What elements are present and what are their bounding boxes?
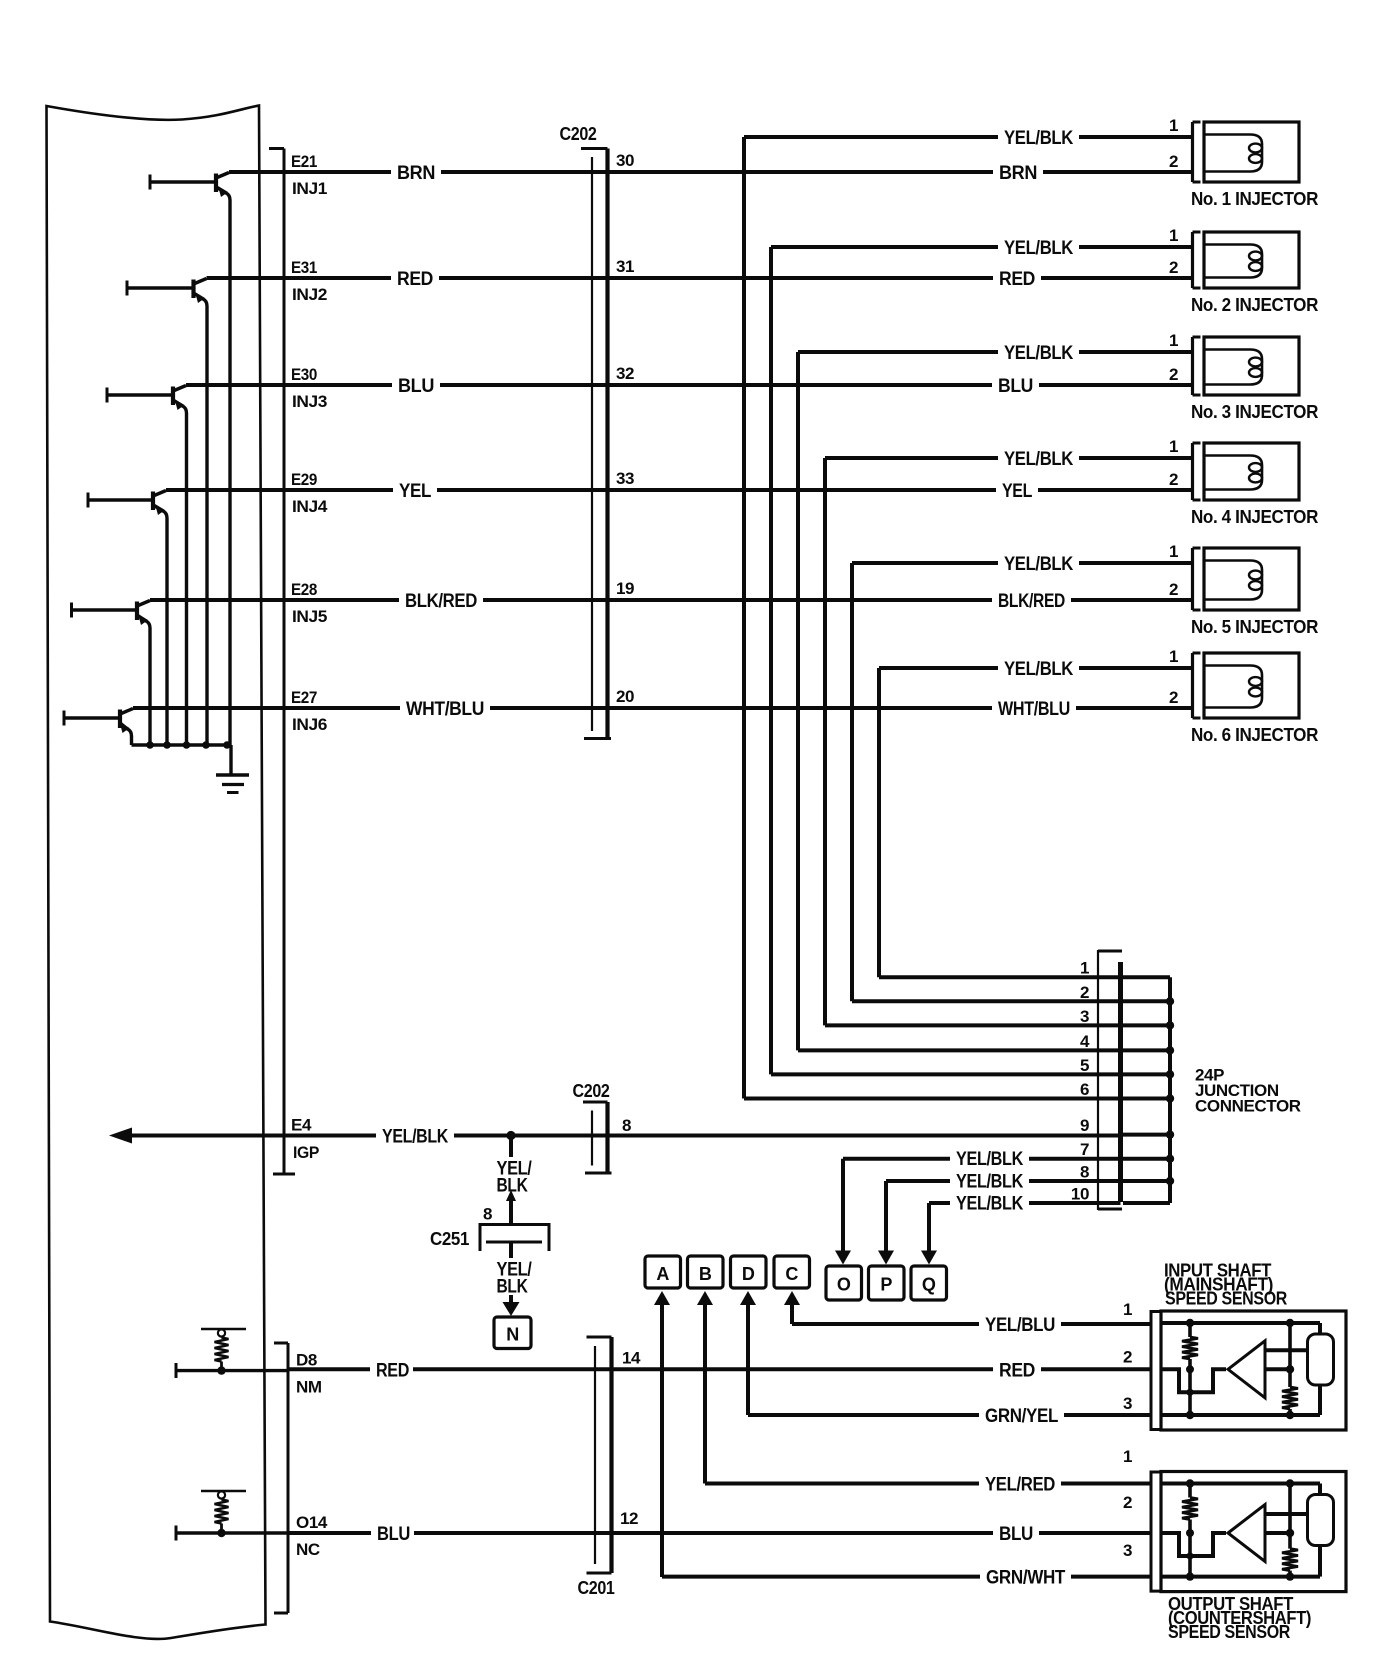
svg-text:No. 5 INJECTOR: No. 5 INJECTOR	[1191, 617, 1318, 637]
wire from A down to sensor row	[654, 1291, 670, 1577]
svg-text:BLK: BLK	[497, 1176, 529, 1197]
svg-text:BLK/RED: BLK/RED	[405, 591, 477, 612]
svg-text:1: 1	[1169, 647, 1178, 666]
junction node on E4 wire	[506, 1131, 515, 1140]
pin numbers 1,2,3 input shaft speed sensor	[1123, 1300, 1132, 1413]
injector coil No.6 INJECTOR	[1204, 653, 1299, 718]
svg-text:No. 4 INJECTOR: No. 4 INJECTOR	[1191, 507, 1318, 527]
svg-text:19: 19	[616, 579, 634, 598]
svg-text:BRN: BRN	[397, 163, 435, 184]
wire YEL/BLK : 24P junction pin 10 to terminal Q	[921, 1194, 1121, 1265]
wire YEL/BLK : 24P junction pin 8 to terminal P	[878, 1172, 1121, 1265]
wire BRN : ECU E21 to C202 pin 30 to injector 1 pin 2	[229, 151, 1193, 184]
wire YEL/BLK : ECU E4/IGP to C202 pin 8 to 24P junction pin 9	[109, 1127, 1121, 1148]
wire YEL/BLK : injector 6 pin 1 to 24P junction connector	[879, 659, 1193, 977]
injector coil No.1 INJECTOR	[1204, 122, 1299, 182]
node E27/INJ6 pin label	[291, 688, 327, 734]
svg-text:1: 1	[1169, 226, 1178, 245]
node O14/NC pin label	[296, 1513, 328, 1559]
svg-text:BLU: BLU	[999, 1524, 1033, 1545]
svg-text:IGP: IGP	[293, 1143, 319, 1162]
wire GRN/WHT : terminal A to output sensor pin 3	[662, 1568, 1151, 1589]
wire RED : ECU E31 to C202 pin 31 to injector 2 pin 2	[207, 257, 1193, 290]
svg-text:1: 1	[1169, 542, 1178, 561]
svg-text:E28: E28	[291, 580, 317, 599]
24P junction connector pin numbers	[1071, 959, 1090, 1204]
pin numbers 1,2 injector 3	[1169, 331, 1178, 384]
svg-text:P: P	[880, 1275, 892, 1295]
svg-text:2: 2	[1169, 365, 1178, 384]
connector C202 (bottom, pin 8)	[573, 1081, 632, 1173]
wire O14 base segment with tick	[176, 1526, 288, 1541]
svg-text:BRN: BRN	[999, 163, 1037, 184]
wire YEL/BLK : injector 2 pin 1 to 24P junction connector	[771, 238, 1193, 1074]
svg-text:33: 33	[616, 469, 634, 488]
svg-text:N: N	[506, 1325, 519, 1345]
wire YEL/BLK : injector 5 pin 1 to 24P junction connector	[852, 554, 1193, 1001]
svg-text:D8: D8	[296, 1351, 317, 1370]
input shaft speed sensor body	[1161, 1311, 1346, 1430]
label INPUT SHAFT (MAINSHAFT) SPEED SENSOR	[1164, 1261, 1287, 1309]
svg-text:9: 9	[1080, 1116, 1089, 1135]
svg-text:3: 3	[1123, 1394, 1132, 1413]
wire GRN/YEL : terminal D to input sensor pin 3	[748, 1406, 1151, 1427]
wire WHT/BLU : ECU E27 to C202 pin 20 to injector 6 pin 2	[133, 687, 1193, 720]
junction dots on emitter bus	[146, 741, 231, 749]
svg-text:YEL/BLK: YEL/BLK	[956, 1194, 1024, 1215]
svg-text:GRN/WHT: GRN/WHT	[986, 1568, 1066, 1589]
svg-text:BLU: BLU	[377, 1524, 410, 1545]
ground symbol	[216, 775, 249, 793]
svg-text:INJ5: INJ5	[292, 607, 327, 626]
injector connector bracket 6	[1193, 653, 1201, 718]
svg-text:B: B	[699, 1264, 712, 1284]
svg-text:Q: Q	[922, 1275, 936, 1295]
transistor Q5 (INJ5 driver)	[72, 601, 151, 629]
transistor Q1 (INJ1 driver)	[150, 173, 230, 201]
label No. 4 INJECTOR	[1191, 507, 1318, 527]
svg-text:RED: RED	[376, 1360, 409, 1381]
svg-text:NC: NC	[296, 1540, 320, 1559]
svg-text:31: 31	[616, 257, 634, 276]
svg-text:No. 6 INJECTOR: No. 6 INJECTOR	[1191, 725, 1318, 745]
svg-text:6: 6	[1080, 1080, 1089, 1099]
svg-text:INJ3: INJ3	[292, 392, 327, 411]
wire RED : ECU D8 via C201 pin 14 to input sensor pin 2	[288, 1360, 1151, 1381]
svg-text:1: 1	[1169, 437, 1178, 456]
svg-text:2: 2	[1080, 983, 1089, 1002]
svg-text:YEL: YEL	[1002, 481, 1033, 502]
svg-text:14: 14	[622, 1348, 641, 1367]
svg-text:C: C	[785, 1264, 798, 1284]
svg-text:8: 8	[1080, 1163, 1089, 1182]
terminal box O	[826, 1266, 862, 1300]
svg-text:30: 30	[616, 151, 634, 170]
svg-text:E30: E30	[291, 365, 317, 384]
terminal box A	[645, 1256, 681, 1288]
wire from D down to sensor row	[740, 1291, 756, 1415]
svg-text:O14: O14	[296, 1513, 328, 1532]
label No. 5 INJECTOR	[1191, 617, 1318, 637]
svg-text:2: 2	[1169, 152, 1178, 171]
pin numbers 1,2 injector 4	[1169, 437, 1178, 489]
svg-text:C202: C202	[560, 124, 597, 144]
injector coil No.3 INJECTOR	[1204, 337, 1299, 395]
emitter bus wire	[132, 200, 232, 775]
svg-text:INJ6: INJ6	[292, 715, 327, 734]
svg-text:C202: C202	[573, 1081, 610, 1101]
svg-text:32: 32	[616, 364, 634, 383]
wire YEL/BLU : terminal C to input sensor pin 1	[792, 1315, 1151, 1336]
input shaft speed sensor connector bracket	[1151, 1312, 1161, 1430]
svg-text:8: 8	[483, 1205, 492, 1224]
label No. 2 INJECTOR	[1191, 295, 1318, 315]
svg-text:20: 20	[616, 687, 634, 706]
label No. 6 INJECTOR	[1191, 725, 1318, 745]
svg-text:1: 1	[1169, 331, 1178, 350]
wire YEL/BLK : 24P junction pin 7 to terminal O	[835, 1149, 1121, 1264]
svg-text:E31: E31	[291, 258, 317, 277]
terminal box B	[688, 1256, 724, 1288]
svg-text:SPEED SENSOR: SPEED SENSOR	[1168, 1622, 1290, 1642]
svg-text:12: 12	[620, 1509, 638, 1528]
svg-text:7: 7	[1080, 1140, 1089, 1159]
svg-text:1: 1	[1123, 1300, 1132, 1319]
transistor Q4 (INJ4 driver)	[88, 491, 167, 519]
svg-text:INJ4: INJ4	[292, 497, 328, 516]
svg-text:8: 8	[622, 1116, 631, 1135]
injector connector bracket 2	[1193, 232, 1201, 288]
injector connector bracket 4	[1193, 443, 1201, 500]
24P junction connector body	[1098, 950, 1122, 1210]
wire YEL/BLK : injector 3 pin 1 to 24P junction connector	[798, 343, 1193, 1050]
injector connector bracket 1	[1193, 122, 1201, 182]
transistor Q2 (INJ2 driver)	[127, 279, 207, 307]
wire YEL/BLK branch down to C251	[483, 1136, 533, 1225]
node E31/INJ2 pin label	[291, 258, 327, 304]
24P junction connector right-side stubs and bus	[1123, 977, 1174, 1203]
svg-text:RED: RED	[999, 1360, 1035, 1381]
pin numbers 14 / 12 at C201	[620, 1348, 641, 1528]
wire YEL/BLK : injector 1 pin 1 to 24P junction connector	[744, 128, 1193, 1099]
pin numbers 1,2 injector 2	[1169, 226, 1178, 277]
svg-text:2: 2	[1169, 470, 1178, 489]
injector coil No.4 INJECTOR	[1204, 443, 1299, 500]
svg-text:2: 2	[1123, 1347, 1132, 1366]
wire BLK/RED : ECU E28 to C202 pin 19 to injector 5 pin 2	[150, 579, 1193, 612]
svg-text:RED: RED	[397, 269, 433, 290]
svg-text:WHT/BLU: WHT/BLU	[998, 699, 1070, 720]
svg-text:O: O	[837, 1275, 851, 1295]
svg-text:1: 1	[1123, 1447, 1132, 1466]
output shaft speed sensor connector bracket	[1151, 1472, 1161, 1591]
svg-text:YEL/BLK: YEL/BLK	[1004, 128, 1074, 149]
pin numbers 1,2 injector 5	[1169, 542, 1178, 599]
transistor Q6 (INJ6 driver)	[64, 709, 133, 737]
svg-text:5: 5	[1080, 1056, 1089, 1075]
injector coil No.5 INJECTOR	[1204, 548, 1299, 610]
svg-text:BLU: BLU	[998, 376, 1033, 397]
svg-text:SPEED SENSOR: SPEED SENSOR	[1165, 1289, 1287, 1309]
svg-text:WHT/BLU: WHT/BLU	[406, 699, 484, 720]
output shaft speed sensor body	[1161, 1472, 1346, 1592]
svg-text:YEL/BLK: YEL/BLK	[1004, 238, 1074, 259]
svg-text:YEL/BLK: YEL/BLK	[1004, 449, 1074, 470]
svg-text:YEL/BLK: YEL/BLK	[1004, 659, 1074, 680]
wire YEL/BLK : injector 4 pin 1 to 24P junction connector	[825, 449, 1193, 1025]
svg-text:GRN/YEL: GRN/YEL	[985, 1406, 1059, 1427]
injector connector bracket 3	[1193, 337, 1201, 395]
pin numbers 1,2,3 output shaft speed sensor	[1123, 1447, 1132, 1560]
svg-text:A: A	[656, 1264, 669, 1284]
node E30/INJ3 pin label	[291, 365, 327, 411]
wire BLU : ECU E30 to C202 pin 32 to injector 3 pin 2	[186, 364, 1193, 397]
node E29/INJ4 pin label	[291, 470, 328, 516]
svg-text:No. 3 INJECTOR: No. 3 INJECTOR	[1191, 402, 1318, 422]
svg-text:E29: E29	[291, 470, 317, 489]
svg-text:INJ1: INJ1	[292, 179, 327, 198]
node E21/INJ1 pin label	[291, 152, 327, 198]
injector connector bracket 5	[1193, 548, 1201, 610]
node E28/INJ5 pin label	[291, 580, 327, 626]
terminal box D	[731, 1256, 767, 1288]
svg-text:E21: E21	[291, 152, 317, 171]
svg-text:E27: E27	[291, 688, 317, 707]
wire from B down to sensor row	[697, 1291, 713, 1484]
svg-text:YEL/BLK: YEL/BLK	[956, 1172, 1024, 1193]
svg-text:YEL/BLU: YEL/BLU	[985, 1315, 1055, 1336]
svg-text:BLK: BLK	[497, 1277, 529, 1298]
svg-text:YEL/RED: YEL/RED	[985, 1475, 1055, 1496]
svg-text:C251: C251	[430, 1229, 469, 1249]
terminal box C	[774, 1256, 810, 1288]
label No. 1 INJECTOR	[1191, 189, 1318, 209]
svg-text:YEL/BLK: YEL/BLK	[956, 1149, 1024, 1170]
svg-text:C201: C201	[578, 1578, 615, 1598]
svg-text:NM: NM	[296, 1378, 322, 1397]
connector C202 (top, pins 30-33,19,20)	[560, 124, 612, 739]
svg-text:No. 2 INJECTOR: No. 2 INJECTOR	[1191, 295, 1318, 315]
svg-text:3: 3	[1080, 1007, 1089, 1026]
node E4/IGP pin label	[291, 1116, 319, 1163]
svg-text:YEL/BLK: YEL/BLK	[382, 1127, 449, 1148]
svg-text:BLK/RED: BLK/RED	[998, 591, 1065, 612]
label OUTPUT SHAFT (COUNTERSHAFT) SPEED SENSOR	[1168, 1594, 1311, 1642]
svg-text:10: 10	[1071, 1185, 1089, 1204]
terminal box P	[869, 1266, 905, 1300]
svg-text:E4: E4	[291, 1116, 312, 1135]
svg-text:BLU: BLU	[398, 376, 434, 397]
injector coil No.2 INJECTOR	[1204, 232, 1299, 288]
svg-text:2: 2	[1169, 258, 1178, 277]
svg-text:4: 4	[1080, 1032, 1090, 1051]
ECU connector bracket (E21..E4 pin row)	[269, 149, 295, 1175]
wire from C down to sensor row	[784, 1291, 800, 1324]
wire D8 base segment with tick	[176, 1363, 288, 1378]
svg-text:D: D	[742, 1264, 755, 1284]
wire YEL/RED : terminal B to output sensor pin 1	[705, 1475, 1151, 1496]
svg-text:1: 1	[1169, 116, 1178, 135]
svg-text:2: 2	[1169, 688, 1178, 707]
svg-text:INJ2: INJ2	[292, 285, 327, 304]
ECU module outline (torn-edge box)	[47, 106, 266, 1639]
label 24P JUNCTION CONNECTOR	[1195, 1066, 1301, 1116]
label No. 3 INJECTOR	[1191, 402, 1318, 422]
node D8/NM pin label	[296, 1351, 322, 1397]
pin numbers 1,2 injector 6	[1169, 647, 1178, 707]
svg-text:CONNECTOR: CONNECTOR	[1195, 1097, 1301, 1116]
terminal box Q	[911, 1266, 947, 1300]
connector C201 (pins 14, 12)	[578, 1337, 615, 1598]
svg-text:3: 3	[1123, 1541, 1132, 1560]
svg-text:YEL/BLK: YEL/BLK	[1004, 554, 1074, 575]
connector C251	[430, 1225, 549, 1252]
svg-text:No. 1 INJECTOR: No. 1 INJECTOR	[1191, 189, 1318, 209]
wire BLU : ECU O14 via C201 pin 12 to output sensor pin 2	[288, 1524, 1151, 1545]
svg-text:2: 2	[1123, 1493, 1132, 1512]
resistor R1 (pull-up at D8/NM)	[201, 1329, 246, 1375]
svg-text:YEL: YEL	[399, 481, 432, 502]
wire YEL/BLK from C251 to terminal N	[497, 1242, 533, 1316]
transistor Q3 (INJ3 driver)	[107, 386, 187, 414]
resistor R2 (pull-up at O14/NC)	[201, 1491, 246, 1537]
svg-text:2: 2	[1169, 580, 1178, 599]
wire YEL : ECU E29 to C202 pin 33 to injector 4 pin 2	[166, 469, 1193, 502]
svg-text:RED: RED	[999, 269, 1035, 290]
ECU connector bracket (D8/O14 pin row)	[274, 1343, 288, 1613]
terminal box N	[494, 1317, 531, 1349]
pin numbers 1,2 injector 1	[1169, 116, 1178, 171]
svg-text:1: 1	[1080, 959, 1089, 978]
svg-text:YEL/BLK: YEL/BLK	[1004, 343, 1074, 364]
